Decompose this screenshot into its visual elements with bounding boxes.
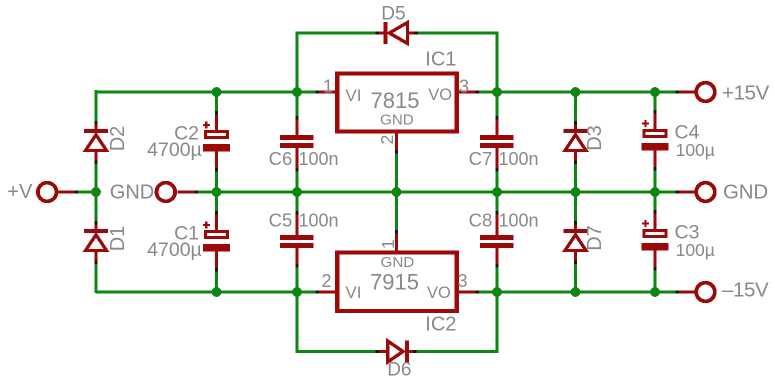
svg-text:3: 3 xyxy=(459,76,469,96)
svg-text:2: 2 xyxy=(321,271,331,291)
svg-text:100n: 100n xyxy=(299,149,339,169)
svg-text:VO: VO xyxy=(428,86,452,104)
svg-text:D3: D3 xyxy=(584,125,606,151)
svg-text:D2: D2 xyxy=(107,126,129,152)
svg-text:4700µ: 4700µ xyxy=(147,139,202,161)
svg-text:100µ: 100µ xyxy=(676,240,715,260)
svg-text:D7: D7 xyxy=(584,225,606,251)
svg-text:2: 2 xyxy=(377,135,397,145)
svg-text:D1: D1 xyxy=(107,226,129,252)
svg-text:GND: GND xyxy=(380,111,414,128)
svg-text:D5: D5 xyxy=(381,4,405,25)
svg-text:7915: 7915 xyxy=(370,270,419,295)
svg-text:100n: 100n xyxy=(299,210,339,230)
svg-text:100n: 100n xyxy=(499,149,539,169)
svg-text:GND: GND xyxy=(110,182,154,204)
svg-text:IC1: IC1 xyxy=(425,49,456,71)
svg-text:GND: GND xyxy=(723,181,768,204)
svg-text:D6: D6 xyxy=(387,360,411,381)
svg-text:IC2: IC2 xyxy=(425,314,456,336)
svg-text:VI: VI xyxy=(345,283,361,302)
svg-text:–15V: –15V xyxy=(722,279,769,302)
svg-text:C8: C8 xyxy=(469,209,493,230)
svg-text:100µ: 100µ xyxy=(676,140,715,160)
svg-text:1: 1 xyxy=(378,239,398,249)
svg-text:1: 1 xyxy=(323,76,333,96)
svg-text:3: 3 xyxy=(458,271,468,291)
svg-text:VO: VO xyxy=(427,284,451,302)
svg-text:C6: C6 xyxy=(269,148,293,169)
svg-text:C5: C5 xyxy=(269,209,293,230)
svg-text:GND: GND xyxy=(381,254,415,271)
svg-text:4700µ: 4700µ xyxy=(147,239,202,261)
svg-text:7815: 7815 xyxy=(371,88,420,113)
svg-text:C7: C7 xyxy=(469,148,493,169)
svg-text:VI: VI xyxy=(345,86,361,105)
svg-text:+V: +V xyxy=(7,181,33,203)
svg-text:100n: 100n xyxy=(499,210,539,230)
svg-text:+15V: +15V xyxy=(722,81,770,104)
